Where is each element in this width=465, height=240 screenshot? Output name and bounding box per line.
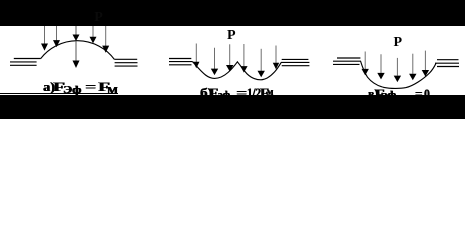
- diagram a: left support hatching: [10, 59, 41, 66]
- arrow b6 stem: [275, 46, 277, 64]
- underline rule below caption a: [0, 93, 118, 94]
- arrow a1 head: [41, 44, 48, 51]
- arrow b5 stem: [260, 49, 262, 71]
- label P (diagram c): [394, 36, 403, 50]
- faint hidden label P (diagram a) inside top bar: [94, 11, 103, 25]
- arrow a1 stem: [44, 26, 46, 44]
- diagram a: right support hatching: [114, 59, 137, 66]
- arrow c4 head: [409, 74, 416, 81]
- caption c) F_ef = 0: [368, 87, 378, 100]
- arrow c4 stem: [412, 54, 414, 74]
- label P (diagram b): [227, 29, 236, 43]
- arrow c1 head: [362, 69, 369, 76]
- arrow b2 head: [211, 69, 218, 76]
- arrow b1 stem: [195, 44, 197, 63]
- diagram c arrows: stems: [365, 51, 425, 76]
- diagram b: double sag curve: [193, 62, 282, 80]
- arrow b2 stem: [214, 48, 216, 69]
- diagram b: right support hatching: [281, 59, 309, 65]
- arrow a3 head lower: [73, 61, 80, 69]
- arrow a4 head: [90, 37, 97, 44]
- arrow a3 stem (long centre, through dome): [75, 26, 77, 61]
- arrow c5 stem: [424, 51, 426, 71]
- arrow b3 head: [226, 65, 233, 72]
- diagram c: right support hatching: [435, 60, 459, 67]
- diagram c: left support hatching: [333, 58, 361, 64]
- arrow a2 stem: [56, 26, 58, 41]
- arrow c2 stem: [380, 54, 382, 73]
- arrow c3 stem: [396, 58, 398, 76]
- arrow b5 head: [258, 71, 265, 78]
- arrow a5 head: [102, 46, 109, 53]
- diagram b arrows: stems: [196, 44, 276, 72]
- arrow a5 stem: [105, 26, 107, 46]
- arrow a4 stem: [92, 26, 94, 37]
- arrow b6 head: [273, 63, 279, 69]
- diagram a arrows: stems: [45, 26, 106, 61]
- arrow c3 head: [394, 76, 401, 83]
- arrow b4 stem: [243, 44, 245, 66]
- arrow b4 head: [240, 66, 247, 73]
- caption a) F_ef = F_m: [43, 80, 55, 93]
- arrow c5 head: [422, 70, 429, 77]
- caption b) F_ef = 1/2 F_m: [200, 86, 212, 99]
- diagram a: dome arc: [41, 41, 115, 60]
- diagram b: left support hatching: [169, 59, 193, 65]
- diagram c: single sag curve: [361, 61, 437, 88]
- arrow a2 head: [53, 40, 60, 47]
- arrow c1 stem: [364, 52, 366, 70]
- arrow b1 head: [193, 62, 199, 68]
- arrow c2 head: [377, 73, 384, 80]
- top black bar: [0, 0, 465, 26]
- arrow a3 head upper: [73, 35, 80, 42]
- bottom black bar: [0, 95, 465, 119]
- arrow b3 stem: [229, 44, 231, 65]
